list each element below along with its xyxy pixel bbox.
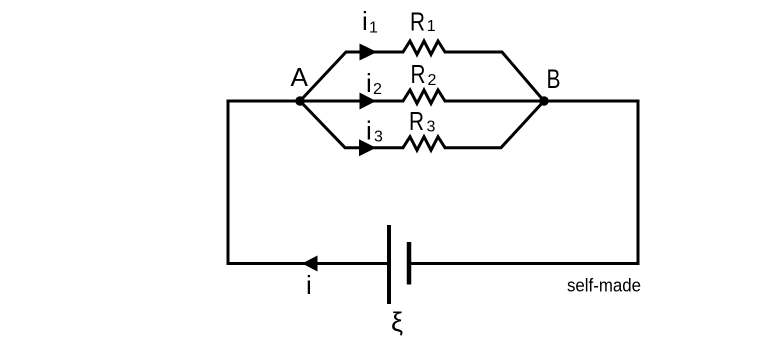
node B junction dot — [539, 96, 548, 105]
svg-text:1: 1 — [427, 18, 436, 35]
svg-text:B: B — [547, 64, 561, 94]
svg-text:i: i — [366, 68, 372, 98]
svg-text:i: i — [366, 116, 372, 146]
current arrow i (bottom wire, pointing left) — [302, 256, 318, 272]
svg-text:i: i — [362, 6, 368, 36]
resistor R3 branch wire with zigzag (bottom branch) — [300, 101, 544, 150]
svg-text:2: 2 — [428, 72, 437, 89]
wire: from battery short plate right along bottom, up right side, to node B — [411, 101, 639, 264]
svg-text:ξ: ξ — [391, 307, 403, 337]
svg-text:3: 3 — [374, 129, 383, 146]
battery cell short plate (negative) — [407, 242, 412, 285]
svg-text:R: R — [411, 59, 426, 89]
svg-text:1: 1 — [369, 20, 378, 37]
svg-text:2: 2 — [373, 81, 382, 98]
svg-text:i: i — [306, 270, 312, 300]
wire: left loop from node A left, down, along bottom to battery long plate — [228, 101, 388, 264]
resistor R1 branch wire with zigzag (top branch) — [300, 41, 544, 101]
node A junction dot — [295, 96, 304, 105]
svg-text:R: R — [409, 106, 424, 136]
current arrow i2 (middle branch, pointing right) — [360, 93, 377, 110]
resistor R2 branch wire with zigzag (middle branch) — [300, 90, 544, 104]
svg-text:3: 3 — [427, 119, 436, 136]
svg-text:self-made: self-made — [567, 276, 641, 296]
svg-text:A: A — [291, 62, 309, 92]
current arrow i3 (bottom branch, pointing right) — [359, 139, 376, 156]
current arrow i1 (top branch, pointing right) — [360, 44, 378, 61]
battery cell long plate (positive) — [387, 225, 391, 304]
svg-text:R: R — [410, 7, 425, 37]
